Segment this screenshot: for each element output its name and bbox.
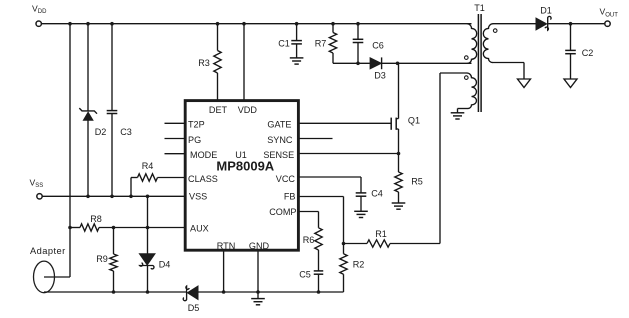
wire Q1 drain — [398, 63, 400, 118]
svg-text:C1: C1 — [278, 39, 290, 49]
capacitor C1 — [291, 40, 302, 42]
svg-text:RTN: RTN — [217, 241, 236, 251]
wire VDD-to-adapter vertical — [69, 24, 71, 277]
resistor R4 — [138, 174, 158, 181]
capacitor C6 lead top — [357, 24, 359, 40]
junction bottom/C5 — [317, 290, 321, 294]
svg-text:C5: C5 — [299, 270, 311, 280]
capacitor C2 — [565, 49, 576, 51]
capacitor C2 lead bottom — [570, 54, 572, 79]
wire bottom rail left — [44, 291, 186, 293]
svg-text:D1: D1 — [540, 6, 552, 16]
junction on VDD rail at D2 — [86, 22, 90, 26]
wire adapter lead horizontal — [44, 276, 70, 278]
transformer T1 aux phase dot — [465, 76, 469, 80]
ground earth below R5 — [392, 202, 406, 204]
resistor R7 lead top — [332, 24, 334, 33]
diode D4 schottky — [139, 254, 155, 266]
svg-text:COMP: COMP — [269, 207, 296, 217]
junction adapter branch / R8 — [68, 226, 72, 230]
capacitor C3 lead bottom — [111, 114, 113, 197]
junction on VDD rail at VDD pin — [242, 22, 246, 26]
junction VSS/D4 branch — [146, 195, 150, 199]
wire VSS rail — [42, 195, 185, 197]
ground earth below C4 — [354, 210, 368, 212]
svg-text:VSS: VSS — [189, 192, 207, 202]
junction at C2 — [569, 22, 573, 26]
diode D5 schottky — [183, 286, 189, 301]
capacitor C1 lead — [296, 24, 298, 41]
capacitor C3 — [107, 110, 118, 112]
ground earth below C1 — [290, 57, 304, 59]
capacitor C3 lead top — [111, 24, 113, 111]
wire R8 to AUX pin — [99, 227, 185, 229]
svg-text:MODE: MODE — [190, 150, 217, 160]
wire aux bottom — [458, 108, 469, 110]
resistor R1 lead left — [344, 243, 368, 245]
transformer T1 core — [477, 14, 479, 112]
wire R1 to aux winding — [439, 73, 441, 244]
pin stub SYNC — [299, 138, 333, 140]
junction VSS/C3 — [110, 195, 114, 199]
svg-text:GATE: GATE — [267, 119, 291, 129]
op-amp U1 MP8009A box — [185, 101, 298, 251]
junction on VDD rail at R7 — [331, 22, 335, 26]
junction bottom/RTN — [222, 290, 226, 294]
resistor R8 — [80, 224, 99, 231]
svg-text:VCC: VCC — [276, 174, 296, 184]
ground earth below aux winding — [451, 112, 465, 114]
wire secondary bottom — [492, 62, 524, 64]
resistor R3 — [214, 51, 221, 74]
resistor R5 lead bottom — [398, 192, 400, 203]
wire COMP — [299, 211, 319, 213]
resistor R9 — [110, 254, 117, 271]
wire secondary top to D1 — [493, 23, 538, 25]
svg-text:SYNC: SYNC — [267, 135, 293, 145]
svg-text:R2: R2 — [353, 260, 365, 270]
svg-text:MP8009A: MP8009A — [216, 158, 274, 173]
adapter plug — [34, 261, 55, 293]
ground triangle below secondary — [518, 79, 531, 88]
svg-text:T1: T1 — [474, 3, 485, 13]
svg-text:AUX: AUX — [190, 223, 209, 233]
capacitor C6 — [353, 38, 364, 40]
svg-text:Q1: Q1 — [408, 116, 420, 126]
svg-text:R4: R4 — [142, 161, 154, 171]
wire bottom rail right — [198, 291, 344, 293]
svg-text:CLASS: CLASS — [188, 174, 218, 184]
transformer T1 secondary phase dot — [493, 29, 497, 33]
resistor R4 drop — [130, 178, 132, 197]
capacitor C2 lead top — [570, 24, 572, 51]
svg-text:FB: FB — [284, 192, 296, 202]
wire GND pin — [257, 251, 259, 299]
wire D1 to VOUT — [548, 23, 605, 25]
wire AUX — [70, 227, 80, 229]
diode D1 — [536, 18, 547, 30]
svg-text:R3: R3 — [198, 58, 210, 68]
resistor R2 lead top — [343, 244, 345, 254]
svg-text:PG: PG — [188, 135, 201, 145]
resistor R5 lead top — [398, 154, 400, 173]
wire D4 branch upper — [147, 196, 149, 253]
diode D2 lead top — [87, 24, 89, 111]
transformer T1 auxiliary winding — [467, 73, 477, 109]
junction VSS/R4 — [129, 195, 133, 199]
junction bottom/R9 — [112, 290, 116, 294]
resistor R9 lead top — [113, 228, 115, 255]
wire VCC — [299, 176, 361, 178]
wire FB — [299, 196, 344, 198]
junction bottom/GND — [256, 290, 260, 294]
svg-text:D5: D5 — [188, 303, 200, 313]
junction on VDD rail at C6 — [356, 22, 360, 26]
junction on VDD rail at adapter branch — [68, 22, 72, 26]
transistor Q1 — [390, 118, 392, 130]
svg-text:DET: DET — [209, 105, 228, 115]
junction on VDD rail at C1 — [295, 22, 299, 26]
wire GATE to Q1 — [299, 122, 391, 124]
svg-text:R7: R7 — [315, 39, 327, 49]
wire SENSE — [299, 153, 399, 155]
svg-text:C6: C6 — [372, 41, 384, 51]
junction bottom/D4 — [146, 290, 150, 294]
capacitor C4 — [356, 192, 367, 194]
junction AUX/D4 branch — [146, 226, 150, 230]
junction R8/R9 — [112, 226, 116, 230]
transformer T1 primary winding — [467, 24, 477, 64]
svg-text:GND: GND — [249, 241, 270, 251]
diode D3 — [370, 58, 381, 69]
diode D2 zener — [83, 112, 93, 120]
wire Q1 source — [396, 128, 398, 130]
ground earth below GND pin — [251, 298, 265, 300]
svg-text:C2: C2 — [582, 48, 594, 58]
svg-text:D2: D2 — [95, 127, 107, 137]
resistor R2 — [340, 254, 347, 274]
resistor R3 lead top — [217, 24, 219, 51]
junction on VDD rail at C3 — [110, 22, 114, 26]
pin stub T2P — [165, 122, 186, 124]
capacitor C5 lead bottom — [318, 274, 320, 292]
capacitor C4 lead bottom — [360, 196, 362, 211]
svg-text:R1: R1 — [375, 229, 387, 239]
capacitor C5 — [314, 270, 324, 272]
capacitor C1 lead bottom — [296, 44, 298, 58]
svg-text:T2P: T2P — [188, 119, 205, 129]
node VDD terminal — [36, 21, 41, 26]
wire VDD pin — [243, 24, 245, 101]
wire D3 to primary — [382, 62, 472, 64]
wire R7/C6 to D3 — [333, 62, 370, 64]
svg-text:VDD: VDD — [238, 105, 258, 115]
diode D4 lead bottom — [147, 265, 149, 292]
resistor R6 — [315, 228, 322, 250]
svg-text:R5: R5 — [411, 177, 423, 187]
resistor R7 lead bottom — [332, 53, 334, 63]
resistor R6 lead bottom — [318, 250, 320, 271]
junction FB/R1/R2 — [342, 242, 346, 246]
junction C6 bottom — [356, 62, 360, 66]
transformer T1 secondary winding — [483, 24, 493, 63]
svg-text:R6: R6 — [303, 235, 315, 245]
junction SENSE/R5/Q1 source — [397, 152, 401, 156]
svg-text:Adapter: Adapter — [30, 246, 66, 256]
resistor R9 lead bottom — [113, 271, 115, 292]
svg-text:C3: C3 — [120, 127, 132, 137]
junction VSS/D2 — [86, 195, 90, 199]
resistor R7 — [329, 33, 336, 54]
resistor R5 — [395, 172, 402, 192]
resistor R1 — [367, 240, 390, 247]
pin stub MODE — [165, 153, 186, 155]
diode D2 lead bottom — [87, 120, 89, 196]
resistor R1 lead right — [390, 243, 440, 245]
svg-text:D4: D4 — [159, 259, 171, 269]
resistor R4 lead right — [158, 177, 186, 179]
resistor R2 lead bottom — [343, 274, 345, 292]
wire RTN pin — [223, 251, 225, 292]
resistor R3 lead bottom — [217, 73, 219, 101]
node VOUT terminal — [605, 21, 610, 26]
transformer T1 primary phase dot — [465, 56, 469, 60]
svg-text:R8: R8 — [90, 214, 102, 224]
junction on VDD rail at R3 — [216, 22, 220, 26]
resistor R4 lead — [131, 177, 138, 179]
capacitor C6 lead bottom — [357, 43, 359, 64]
svg-text:D3: D3 — [374, 71, 386, 81]
wire aux top to feedback — [440, 72, 467, 74]
wire VDD top rail — [42, 23, 472, 25]
pin stub PG — [165, 138, 186, 140]
ground triangle below C2 — [564, 79, 577, 88]
svg-text:C4: C4 — [371, 189, 383, 199]
node VSS terminal — [37, 194, 42, 199]
junction D3/Q1 drain/primary — [396, 62, 400, 66]
svg-text:R9: R9 — [96, 254, 108, 264]
